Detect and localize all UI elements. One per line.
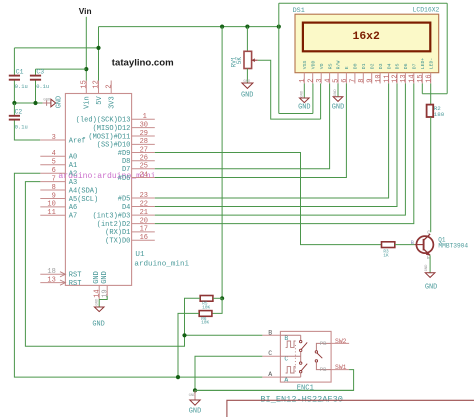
svg-text:180: 180 bbox=[434, 111, 445, 118]
wire RV1 top bbox=[246, 27, 248, 52]
svg-text:(int2)D2: (int2)D2 bbox=[97, 221, 131, 229]
pin 28 stub ((SS)#D10) bbox=[132, 143, 155, 145]
wire VO wiper run bbox=[258, 60, 321, 119]
junction C1 gnd bbox=[12, 101, 16, 105]
svg-text:RST: RST bbox=[69, 280, 82, 288]
svg-text:tataylino.com: tataylino.com bbox=[112, 57, 174, 68]
svg-text:28: 28 bbox=[140, 138, 148, 146]
svg-text:VDD: VDD bbox=[310, 61, 316, 70]
encoder pin A stub bbox=[262, 376, 280, 378]
svg-text:LCD16X2: LCD16X2 bbox=[413, 6, 440, 13]
junction 5V rail R-pullups bbox=[220, 25, 224, 29]
svg-text:(int3)#D3: (int3)#D3 bbox=[93, 212, 131, 220]
wire C1 top vertical bbox=[13, 48, 15, 75]
svg-text:E: E bbox=[344, 66, 350, 69]
ground LCD VSS bbox=[298, 90, 310, 111]
lcd pin 6 stub bbox=[345, 73, 347, 84]
svg-text:D2: D2 bbox=[369, 63, 375, 69]
pin 6 stub (A2) bbox=[40, 172, 65, 174]
svg-text:#D9: #D9 bbox=[118, 150, 131, 158]
svg-text:13: 13 bbox=[47, 276, 55, 284]
svg-text:VO: VO bbox=[319, 63, 325, 69]
pin 1 stub ((led)(SCK)D13) bbox=[132, 118, 155, 120]
svg-text:C: C bbox=[427, 230, 430, 236]
svg-text:(TX)D0: (TX)D0 bbox=[105, 238, 130, 246]
junction Vin-C3 bbox=[84, 67, 88, 71]
pin 14 stub (GND) bbox=[98, 285, 100, 299]
wire B line bbox=[185, 334, 263, 336]
svg-text:3V3: 3V3 bbox=[109, 96, 117, 109]
encoder pb lever bbox=[317, 353, 322, 358]
pin 2 top stub bbox=[110, 81, 112, 94]
wire RS net bbox=[155, 84, 330, 169]
svg-text:1: 1 bbox=[299, 79, 307, 83]
svg-text:1: 1 bbox=[143, 113, 147, 121]
svg-text:10K: 10K bbox=[201, 321, 209, 326]
svg-text:4: 4 bbox=[324, 79, 332, 83]
svg-text:30: 30 bbox=[140, 121, 148, 129]
svg-text:GND: GND bbox=[95, 298, 99, 306]
svg-text:D7: D7 bbox=[122, 166, 130, 174]
wire C2 bottom to Aref bbox=[14, 120, 40, 140]
encoder pin SW2 stub bbox=[331, 342, 349, 344]
ground LCD RW bbox=[332, 89, 344, 112]
svg-text:R/W: R/W bbox=[336, 61, 342, 70]
encoder wave 1 bbox=[286, 341, 296, 347]
svg-text:3: 3 bbox=[316, 79, 324, 83]
wire LED+ up bbox=[421, 84, 423, 94]
svg-text:A2: A2 bbox=[69, 171, 77, 179]
ground RV1 bbox=[241, 80, 253, 99]
junction B line bbox=[182, 333, 186, 337]
svg-text:27: 27 bbox=[140, 146, 148, 154]
svg-text:25: 25 bbox=[140, 163, 148, 171]
svg-text:RST: RST bbox=[69, 272, 82, 280]
junction C3 gnd bbox=[33, 101, 37, 105]
wire C to gnd bbox=[195, 356, 262, 390]
wire R6 right bbox=[212, 298, 222, 313]
capacitor C2 bbox=[9, 116, 20, 120]
ground U1 bbox=[92, 298, 104, 328]
svg-text:SW1: SW1 bbox=[335, 364, 347, 371]
svg-text:13: 13 bbox=[400, 74, 408, 82]
wire lcd D4 net bbox=[155, 84, 389, 199]
junction bottom gnd bbox=[193, 388, 197, 392]
svg-text:GND: GND bbox=[300, 90, 304, 98]
wire 5V rail horizontal bbox=[99, 26, 279, 28]
lcd pin 15 stub bbox=[421, 73, 423, 84]
svg-text:B: B bbox=[268, 329, 272, 336]
wire C3 top to Vin bbox=[36, 68, 87, 70]
svg-text:#D5: #D5 bbox=[118, 195, 131, 203]
pin 9 stub (A5(SCL)) bbox=[40, 198, 65, 200]
pin 16 stub ((TX)D0) bbox=[132, 239, 155, 241]
svg-text:4: 4 bbox=[52, 150, 56, 158]
encoder contact A2 bbox=[300, 362, 302, 364]
svg-text:5: 5 bbox=[52, 159, 56, 167]
svg-text:A: A bbox=[284, 377, 288, 384]
svg-text:D3: D3 bbox=[378, 63, 384, 69]
svg-text:16: 16 bbox=[425, 74, 433, 82]
svg-text:8: 8 bbox=[52, 184, 56, 192]
wire gnd rail bottom bbox=[195, 389, 354, 391]
capacitor C1 bbox=[9, 76, 20, 80]
svg-text:17: 17 bbox=[140, 226, 148, 234]
pin 26 stub (D8) bbox=[132, 160, 155, 162]
svg-text:(MOSI)#D11: (MOSI)#D11 bbox=[88, 133, 130, 141]
svg-text:C1: C1 bbox=[16, 68, 24, 75]
trimpot RV1 body bbox=[244, 51, 252, 68]
wire R5 right bbox=[213, 297, 222, 299]
svg-text:#D6: #D6 bbox=[118, 175, 131, 183]
lcd pin 8 stub bbox=[362, 73, 364, 84]
pin 5 stub (A1) bbox=[40, 164, 65, 166]
lcd screen box bbox=[303, 23, 430, 52]
svg-text:10K: 10K bbox=[202, 305, 210, 310]
svg-text:0.1u: 0.1u bbox=[15, 125, 28, 131]
wire VDD up bbox=[312, 84, 314, 114]
lcd pin 5 stub bbox=[337, 73, 339, 84]
resistor R5 bbox=[200, 296, 213, 302]
svg-text:PB: PB bbox=[320, 340, 327, 347]
wire R3 to base bbox=[395, 244, 415, 246]
svg-text:16: 16 bbox=[140, 234, 148, 242]
lcd pin 14 stub bbox=[413, 73, 415, 84]
lcd pin 9 stub bbox=[371, 73, 373, 84]
svg-text:C2: C2 bbox=[15, 109, 23, 116]
wire 5V pin vertical bbox=[98, 27, 100, 81]
encoder pb bottom path bbox=[316, 362, 331, 369]
wire E net bbox=[155, 84, 347, 178]
svg-text:12: 12 bbox=[93, 80, 101, 88]
svg-text:10: 10 bbox=[47, 201, 55, 209]
wire lcd D7 net bbox=[155, 84, 414, 224]
svg-text:Vin: Vin bbox=[84, 96, 92, 109]
ground Q1 bbox=[425, 264, 437, 292]
encoder dotted axis bbox=[294, 345, 296, 372]
encoder ENC1 box bbox=[280, 331, 331, 382]
wire RW down bbox=[337, 84, 339, 97]
pin 13 clock mark bbox=[60, 280, 65, 285]
svg-text:2: 2 bbox=[307, 79, 315, 83]
wire gnd pin19 jog bbox=[99, 296, 107, 300]
svg-text:21: 21 bbox=[140, 209, 148, 217]
wire C3 top stub bbox=[35, 69, 37, 75]
svg-text:MMBT3904: MMBT3904 bbox=[438, 242, 468, 249]
pin 15 top stub bbox=[85, 81, 87, 94]
wire lcd D6 net bbox=[155, 84, 406, 216]
lcd pin 2 stub bbox=[312, 73, 314, 84]
svg-text:5: 5 bbox=[333, 79, 341, 83]
svg-text:26: 26 bbox=[140, 155, 148, 163]
wire VSS down bbox=[303, 84, 305, 98]
svg-text:5K: 5K bbox=[236, 57, 243, 65]
svg-text:LED+: LED+ bbox=[420, 58, 426, 70]
svg-text:PB: PB bbox=[320, 366, 327, 373]
resistor R3 bbox=[382, 242, 395, 248]
lcd pin 12 stub bbox=[396, 73, 398, 84]
junction pullups bbox=[220, 296, 224, 300]
junction 5V rail RV1 bbox=[245, 25, 249, 29]
svg-text:A: A bbox=[268, 371, 272, 378]
svg-text:(RX)D1: (RX)D1 bbox=[105, 229, 130, 237]
pin 20 stub ((int2)D2) bbox=[132, 223, 155, 225]
wire lcd D5 net bbox=[155, 84, 397, 207]
wire A3 to encoder B bbox=[25, 182, 184, 347]
wire Vin vertical bbox=[85, 17, 87, 81]
encoder wave 2 bbox=[286, 367, 296, 373]
svg-text:BI_EN12-HS22AF30: BI_EN12-HS22AF30 bbox=[260, 394, 343, 404]
junction cap rail 5V bbox=[96, 46, 100, 50]
svg-text:D7: D7 bbox=[412, 63, 418, 69]
lcd pin 13 stub bbox=[404, 73, 406, 84]
trimpot RV1 wiper bbox=[252, 59, 258, 61]
wire right side down bbox=[446, 3, 448, 94]
svg-text:7: 7 bbox=[350, 79, 358, 83]
pin 4 stub (A0) bbox=[40, 155, 65, 157]
resistor R6 bbox=[199, 311, 212, 317]
svg-text:Vin: Vin bbox=[79, 6, 92, 16]
lcd pin 7 stub bbox=[354, 73, 356, 84]
wire D9 to R3 bbox=[155, 153, 382, 245]
pin 3 stub (Aref) bbox=[40, 139, 65, 141]
svg-text:ENC1: ENC1 bbox=[297, 385, 314, 393]
junction 5V rail LCD branch bbox=[277, 25, 281, 29]
pin 11 stub (A7) bbox=[40, 214, 65, 216]
junction A line R6 bbox=[176, 375, 180, 379]
svg-text:VSS: VSS bbox=[302, 61, 308, 70]
svg-text:15: 15 bbox=[80, 80, 88, 88]
svg-text:24: 24 bbox=[140, 171, 148, 179]
svg-text:GND: GND bbox=[101, 271, 109, 284]
svg-text:7: 7 bbox=[52, 175, 56, 183]
svg-text:(MISO)D12: (MISO)D12 bbox=[93, 125, 131, 133]
svg-text:D1: D1 bbox=[361, 63, 367, 69]
wire emitter down bbox=[429, 255, 431, 272]
svg-text:arduino_mini: arduino_mini bbox=[134, 261, 189, 269]
svg-text:LED-: LED- bbox=[428, 58, 434, 70]
pin 17 stub ((RX)D1) bbox=[132, 231, 155, 233]
wire C1 bottom bbox=[13, 80, 15, 103]
lcd pin 10 stub bbox=[379, 73, 381, 84]
svg-text:GND: GND bbox=[93, 271, 101, 284]
lcd DS1 box bbox=[295, 14, 439, 72]
svg-text:GND: GND bbox=[425, 284, 437, 292]
svg-text:RS: RS bbox=[327, 63, 333, 69]
svg-text:0.1u: 0.1u bbox=[36, 84, 49, 90]
svg-text:3: 3 bbox=[52, 134, 56, 142]
svg-text:GND: GND bbox=[334, 89, 338, 97]
encoder pb top path bbox=[316, 343, 331, 350]
svg-text:SW2: SW2 bbox=[335, 338, 347, 345]
pin 18 clock mark bbox=[60, 272, 65, 277]
svg-text:GND: GND bbox=[332, 103, 344, 111]
svg-text:GND: GND bbox=[298, 103, 310, 111]
wire C3 bottom bbox=[35, 80, 37, 103]
pin 22 stub (D4) bbox=[132, 206, 155, 208]
pin 10 stub (A6) bbox=[40, 206, 65, 208]
pin 19 stub (GND) bbox=[106, 285, 108, 296]
svg-text:A3: A3 bbox=[69, 179, 77, 187]
svg-text:GND: GND bbox=[241, 91, 253, 99]
pin 18 stub (RST) bbox=[40, 273, 65, 275]
svg-text:(led)(SCK)D13: (led)(SCK)D13 bbox=[76, 117, 131, 125]
svg-text:A1: A1 bbox=[69, 162, 77, 170]
pin 25 stub (D7) bbox=[132, 168, 155, 170]
svg-text:5V: 5V bbox=[96, 96, 104, 105]
pin 30 stub ((MISO)D12) bbox=[132, 127, 155, 129]
wire LED- to R2 bbox=[430, 84, 432, 105]
svg-text:C: C bbox=[268, 350, 272, 357]
svg-text:DS1: DS1 bbox=[293, 7, 305, 15]
wire R5 left to B bbox=[185, 298, 201, 335]
encoder contact B bbox=[280, 334, 300, 336]
lcd pin 11 stub bbox=[388, 73, 390, 84]
svg-text:D8: D8 bbox=[122, 158, 130, 166]
svg-text:(SS)#D10: (SS)#D10 bbox=[97, 142, 131, 150]
encoder common C bbox=[280, 355, 300, 357]
svg-text:8: 8 bbox=[358, 79, 366, 83]
svg-text:2: 2 bbox=[105, 84, 113, 88]
svg-text:10: 10 bbox=[375, 74, 383, 82]
svg-text:A0: A0 bbox=[69, 154, 77, 162]
svg-text:14: 14 bbox=[409, 74, 417, 82]
encoder pin SW1 stub bbox=[331, 369, 349, 371]
wire R6 left to A bbox=[178, 313, 199, 377]
svg-text:B: B bbox=[411, 240, 414, 246]
ground bottom bbox=[189, 390, 202, 415]
svg-text:15: 15 bbox=[417, 74, 425, 82]
svg-text:C3: C3 bbox=[36, 68, 44, 75]
pin 7 stub (A3) bbox=[40, 181, 65, 183]
wire gnd rail caps bbox=[14, 102, 42, 104]
ic U1 arduino_mini box bbox=[65, 94, 131, 286]
svg-text:U1: U1 bbox=[135, 251, 145, 259]
svg-text:A5(SCL): A5(SCL) bbox=[69, 196, 98, 204]
wire 5V to LCD-left vertical bbox=[278, 3, 280, 113]
wire VDD horizontal bbox=[279, 113, 313, 115]
svg-text:E: E bbox=[427, 255, 430, 261]
svg-text:23: 23 bbox=[140, 192, 148, 200]
wire R2 to collector bbox=[430, 117, 432, 232]
encoder lever B bbox=[301, 342, 307, 349]
wire SW1 to gnd bbox=[195, 370, 354, 391]
svg-text:D4: D4 bbox=[122, 204, 130, 212]
frame border bbox=[227, 400, 474, 417]
encoder pin C stub bbox=[262, 355, 280, 357]
lcd pin 4 stub bbox=[329, 73, 331, 84]
svg-text:6: 6 bbox=[341, 79, 349, 83]
svg-text:18: 18 bbox=[47, 268, 55, 276]
svg-text:1K: 1K bbox=[383, 254, 389, 259]
resistor R2 bbox=[427, 105, 434, 117]
pin 12 top stub bbox=[98, 81, 100, 94]
svg-text:9: 9 bbox=[366, 79, 374, 83]
pin 21 stub ((int3)#D3) bbox=[132, 214, 155, 216]
pin 27 stub (#D9) bbox=[132, 152, 155, 154]
wire LED+ horizontal bbox=[422, 93, 447, 95]
wire VO up bbox=[320, 84, 322, 120]
svg-text:GND: GND bbox=[425, 264, 429, 272]
svg-text:11: 11 bbox=[47, 209, 55, 217]
lcd pin 3 stub bbox=[320, 73, 322, 84]
svg-text:GND: GND bbox=[189, 408, 201, 416]
wire pullup rail down bbox=[221, 27, 223, 299]
svg-text:12: 12 bbox=[392, 74, 400, 82]
svg-text:16x2: 16x2 bbox=[353, 31, 381, 43]
svg-text:D0: D0 bbox=[353, 63, 359, 69]
svg-text:C: C bbox=[284, 356, 288, 363]
pin 29 stub ((MOSI)#D11) bbox=[132, 135, 155, 137]
svg-text:D6: D6 bbox=[403, 63, 409, 69]
encoder contact A bbox=[300, 371, 302, 373]
wire cap rail bbox=[14, 47, 98, 49]
svg-text:9: 9 bbox=[52, 192, 56, 200]
encoder pb contact top bbox=[315, 351, 317, 353]
wire A2 to encoder A bbox=[14, 173, 262, 377]
svg-text:GND: GND bbox=[55, 96, 63, 108]
wire top rail over LCD bbox=[279, 2, 447, 4]
svg-text:20: 20 bbox=[140, 217, 148, 225]
capacitor C3 bbox=[30, 76, 41, 80]
wire C2 top bbox=[13, 103, 15, 116]
svg-text:19: 19 bbox=[101, 289, 109, 297]
encoder pb contact bottom bbox=[315, 360, 317, 362]
lcd pin 16 stub bbox=[430, 73, 432, 84]
pin 8 stub (A4(SDA)) bbox=[40, 189, 65, 191]
pin 13 stub (RST) bbox=[40, 282, 65, 284]
svg-text:A6: A6 bbox=[69, 204, 77, 212]
svg-text:D4: D4 bbox=[386, 63, 392, 69]
svg-text:A7: A7 bbox=[69, 213, 77, 221]
svg-text:29: 29 bbox=[140, 130, 148, 138]
pin 24 stub (#D6) bbox=[132, 177, 155, 179]
svg-text:14: 14 bbox=[93, 289, 101, 297]
wire RV1 bottom bbox=[246, 69, 248, 83]
encoder pin B stub bbox=[262, 334, 280, 336]
ground caps bbox=[43, 96, 64, 108]
svg-text:22: 22 bbox=[140, 200, 148, 208]
svg-text:D5: D5 bbox=[395, 63, 401, 69]
svg-text:Aref: Aref bbox=[69, 137, 86, 145]
pin 23 stub (#D5) bbox=[132, 197, 155, 199]
svg-text:GND: GND bbox=[92, 320, 104, 328]
svg-text:A4(SDA): A4(SDA) bbox=[69, 187, 98, 195]
wire gnd pin14 down bbox=[98, 300, 100, 307]
transistor Q1 bbox=[415, 234, 434, 255]
lcd pin 1 stub bbox=[303, 73, 305, 84]
svg-text:GND: GND bbox=[43, 98, 51, 102]
svg-text:0.1u: 0.1u bbox=[15, 84, 28, 90]
svg-text:6: 6 bbox=[52, 167, 56, 175]
svg-text:11: 11 bbox=[383, 74, 391, 82]
